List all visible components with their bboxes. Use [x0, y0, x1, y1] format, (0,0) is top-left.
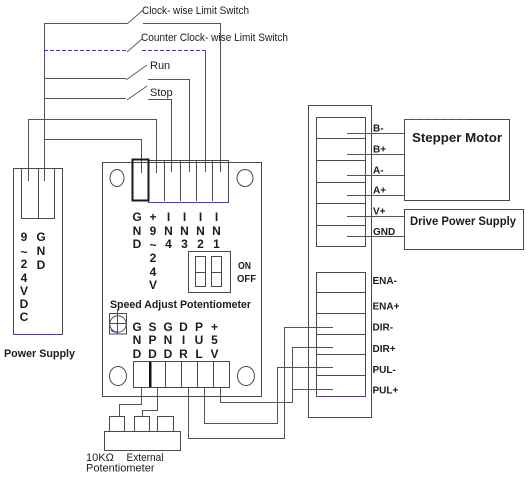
svg-text:C: C — [20, 310, 29, 324]
wire: +5V branch to driver PUL+ — [293, 389, 334, 391]
DIP switch U1 — [189, 252, 231, 293]
svg-text:D: D — [148, 347, 157, 361]
svg-text:B+: B+ — [373, 145, 386, 156]
wire: clockwise limit switch output to IN1 — [143, 24, 221, 173]
svg-text:V: V — [210, 347, 218, 361]
svg-text:DIR+: DIR+ — [373, 344, 396, 355]
wire: run switch output to IN3 — [148, 80, 190, 173]
bottom terminal labels GND SPD GND DIR PUL +5V — [132, 320, 218, 361]
svg-text:N: N — [164, 333, 173, 347]
wire: run switch left lead — [44, 78, 126, 80]
svg-text:4: 4 — [21, 271, 28, 285]
wire: board DIR to driver DIR- — [189, 328, 334, 439]
svg-text:I: I — [182, 333, 185, 347]
svg-text:Drive Power Supply: Drive Power Supply — [410, 214, 516, 228]
driver board outline — [103, 163, 262, 397]
wire: board +5V to driver DIR+ — [221, 348, 334, 403]
wire: clockwise limit switch left lead — [44, 23, 127, 25]
svg-text:N: N — [196, 224, 205, 238]
switch blade: stop — [127, 86, 147, 100]
svg-text:B-: B- — [373, 124, 384, 135]
svg-text:1: 1 — [213, 237, 220, 251]
top terminal strip — [149, 161, 229, 203]
svg-text:D: D — [164, 347, 173, 361]
wire: counter clockwise switch vertical to IN2 — [205, 51, 207, 173]
svg-text:GND: GND — [373, 227, 395, 238]
driver lower terminal block (ENA DIR PUL) — [317, 273, 366, 397]
svg-text:A-: A- — [373, 166, 384, 177]
stepper motor box — [405, 120, 510, 201]
svg-text:I: I — [215, 210, 218, 224]
svg-text:N: N — [164, 224, 173, 238]
power supply terminal block — [22, 169, 55, 219]
svg-text:9: 9 — [150, 224, 157, 238]
svg-text:V: V — [149, 278, 157, 292]
wire: stop switch output to IN4 — [148, 100, 172, 173]
wire: board PUL to driver PUL- — [205, 368, 334, 424]
stepper driver terminal block outline — [309, 106, 372, 418]
svg-text:D: D — [20, 297, 29, 311]
svg-text:N: N — [212, 224, 221, 238]
svg-text:ENA+: ENA+ — [373, 302, 400, 313]
bottom terminal strip — [134, 362, 230, 388]
svg-text:D: D — [133, 347, 142, 361]
svg-text:N: N — [180, 224, 189, 238]
svg-text:G: G — [163, 320, 172, 334]
svg-text:Stepper Motor: Stepper Motor — [412, 130, 502, 145]
wire: A- to stepper motor — [347, 175, 404, 177]
top terminal labels GND +9~24V IN4 IN3 IN2 IN1 — [132, 210, 221, 292]
svg-text:P: P — [195, 320, 203, 334]
external potentiometer body — [105, 432, 181, 451]
wire: B- to stepper motor — [347, 133, 404, 135]
wire: common bus from switches to power supply GND — [44, 24, 46, 182]
svg-text:R: R — [179, 347, 188, 361]
svg-text:A+: A+ — [373, 186, 386, 197]
svg-text:+: + — [211, 320, 218, 334]
svg-text:ENA-: ENA- — [373, 276, 397, 287]
svg-text:OFF: OFF — [237, 274, 256, 285]
svg-text:Power Supply: Power Supply — [4, 348, 76, 360]
svg-text:PUL-: PUL- — [373, 365, 396, 376]
svg-text:9: 9 — [21, 230, 28, 244]
potentiometer symbol RV1 — [110, 310, 127, 335]
svg-text:~: ~ — [149, 238, 156, 252]
svg-text:Stop: Stop — [150, 87, 173, 99]
svg-text:Counter Clock- wise Limit Swit: Counter Clock- wise Limit Switch — [141, 32, 288, 44]
wire: GND junction to board GND terminal — [45, 140, 142, 174]
svg-text:2: 2 — [197, 237, 204, 251]
svg-text:Speed Adjust Potentiometer: Speed Adjust Potentiometer — [110, 299, 252, 311]
svg-text:N: N — [133, 224, 142, 238]
svg-text:I: I — [183, 210, 186, 224]
svg-text:G: G — [132, 320, 141, 334]
switch blade: clockwise limit switch — [127, 10, 143, 24]
switch blade: run — [126, 65, 147, 80]
svg-text:N: N — [133, 333, 142, 347]
label: 9~24VDC — [20, 230, 29, 324]
wire: counter clockwise switch left lead (blue dashed) — [44, 50, 127, 52]
svg-text:I: I — [199, 210, 202, 224]
switch blade: counter clockwise limit switch — [127, 39, 142, 52]
mounting hole top-right — [237, 170, 253, 187]
svg-text:I: I — [167, 210, 170, 224]
svg-text:Run: Run — [150, 60, 170, 72]
wire: stop switch left lead — [44, 98, 126, 100]
external potentiometer pin tabs — [105, 417, 181, 451]
label: GND (power supply) — [36, 230, 45, 272]
svg-text:U: U — [195, 333, 204, 347]
terminal GND (thick box) — [133, 160, 149, 201]
driver terminal labels — [373, 124, 400, 397]
blue scan artifacts — [317, 396, 365, 398]
wire: board GND to potentiometer pin1 — [120, 388, 142, 417]
driver upper terminal block (B- B+ A- A+ V+ GND) — [317, 118, 366, 247]
wire: A+ to stepper motor — [347, 195, 404, 197]
svg-text:5: 5 — [211, 333, 218, 347]
svg-text:G: G — [36, 230, 45, 244]
svg-text:V: V — [20, 284, 28, 298]
svg-text:4: 4 — [165, 237, 172, 251]
power supply bottom edge blue artifact — [14, 334, 61, 336]
svg-text:4: 4 — [150, 265, 157, 279]
svg-text:N: N — [37, 244, 46, 258]
svg-text:PUL+: PUL+ — [373, 386, 399, 397]
svg-text:Potentiometer: Potentiometer — [86, 463, 155, 475]
wire: B+ to stepper motor — [347, 154, 404, 156]
mounting hole bottom-right — [238, 367, 255, 386]
svg-text:D: D — [133, 237, 142, 251]
svg-text:2: 2 — [21, 257, 28, 271]
wire: counter clockwise switch output to IN2 (dashed) — [142, 50, 206, 52]
svg-text:D: D — [179, 320, 188, 334]
wire: GND to drive power supply — [347, 236, 404, 238]
svg-text:L: L — [195, 347, 202, 361]
svg-text:ON: ON — [238, 261, 251, 272]
svg-text:D: D — [37, 258, 46, 272]
wire: board SPD to potentiometer pin2 — [143, 388, 158, 417]
wire: power supply + to board +9~24V terminal — [29, 120, 157, 174]
wire: V+ to drive power supply — [347, 216, 404, 218]
svg-text:V+: V+ — [373, 207, 386, 218]
power supply box — [14, 169, 63, 335]
thick divider between GND and SPD — [149, 362, 152, 387]
mounting hole top-left — [110, 170, 124, 187]
svg-text:DIR-: DIR- — [373, 323, 394, 334]
svg-text:S: S — [148, 320, 156, 334]
svg-text:3: 3 — [181, 237, 188, 251]
svg-text:2: 2 — [150, 251, 157, 265]
svg-text:Clock- wise Limit Switch: Clock- wise Limit Switch — [142, 5, 249, 17]
svg-text:G: G — [132, 210, 141, 224]
mounting hole bottom-left — [110, 367, 127, 386]
svg-text:P: P — [148, 333, 156, 347]
drive power supply box — [405, 210, 524, 250]
svg-text:+: + — [149, 210, 156, 224]
